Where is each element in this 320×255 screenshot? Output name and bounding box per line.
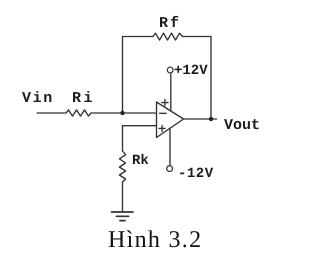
node junction input (120, 111, 124, 115)
op-amp inverting input minus marker (160, 112, 167, 114)
label Rf (159, 15, 181, 32)
label -12V (178, 165, 214, 181)
wire non-inverting input to Rk (123, 126, 157, 151)
wire feedback top right segment (183, 36, 212, 38)
wire Vin input left segment (37, 112, 66, 114)
label Ri (71, 89, 94, 106)
label Vin (22, 89, 54, 106)
caption Hinh 3.2 (107, 227, 201, 254)
resistor Ri (66, 110, 91, 116)
wire Rk to ground (122, 182, 124, 212)
label Vout (223, 116, 259, 133)
terminal -12V circle (167, 166, 173, 172)
wire feedback top left segment (123, 36, 154, 38)
wire negative supply (169, 129, 171, 166)
op-amp plus power marker (162, 100, 168, 106)
wire Ri to op-amp inverting input (91, 112, 157, 114)
resistor Rf (153, 33, 183, 40)
wire feedback left vertical (122, 37, 124, 114)
op-amp non-inverting input plus marker (159, 125, 165, 131)
node junction output (209, 117, 213, 121)
label Rk (132, 152, 149, 168)
resistor Rk (119, 151, 125, 182)
terminal +12V circle (167, 67, 173, 73)
wire feedback right vertical (210, 37, 212, 120)
label +12V (174, 63, 208, 79)
wire output (184, 118, 217, 120)
ground (112, 212, 134, 221)
wire positive supply (170, 73, 172, 111)
op-amp U1 triangle (157, 102, 184, 138)
